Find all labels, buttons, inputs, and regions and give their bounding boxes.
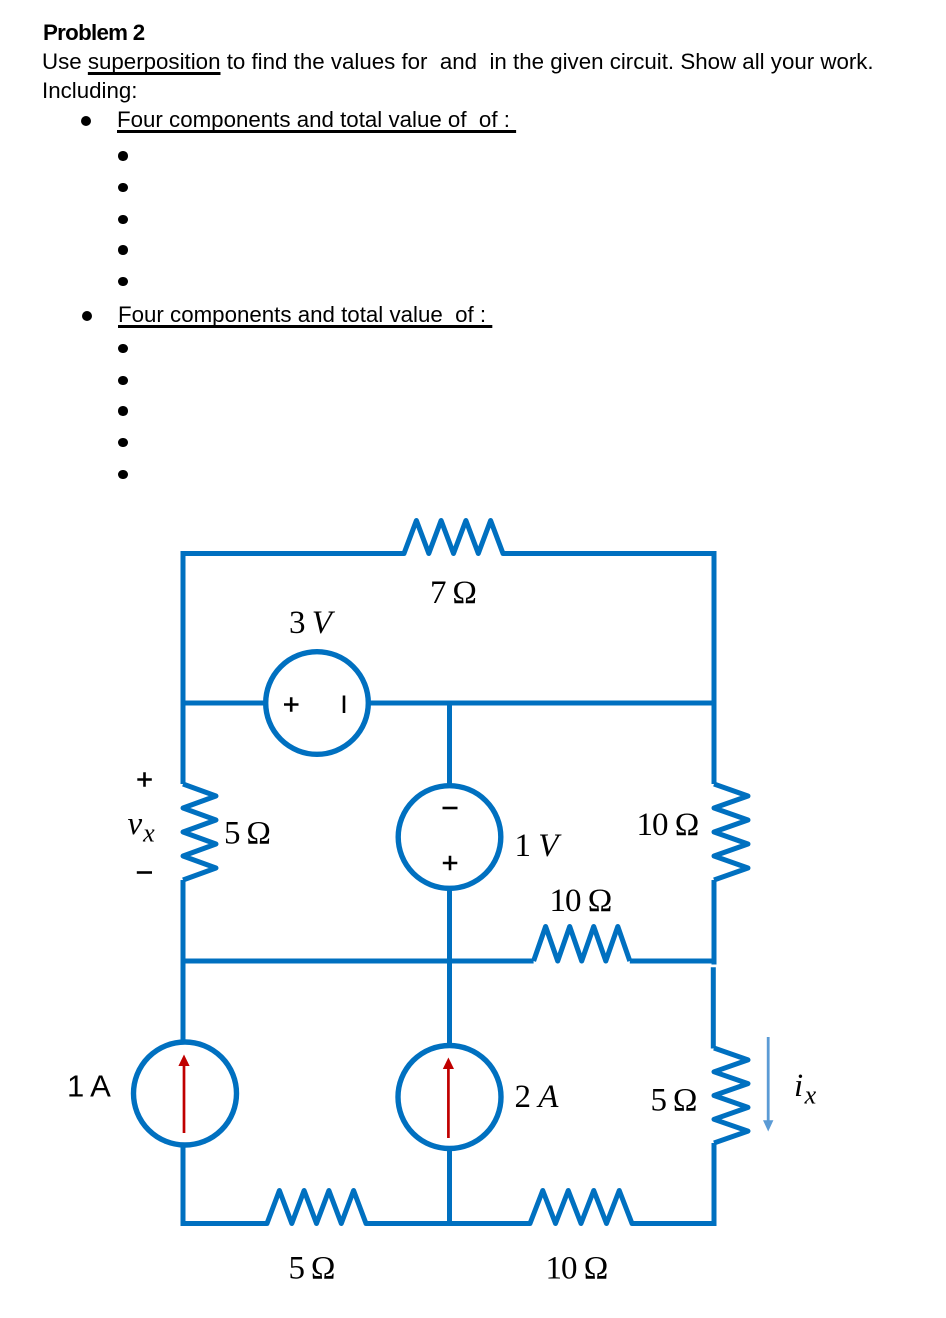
plus sign inside 3V source <box>284 697 299 712</box>
sub-bullet 1.4 <box>118 245 127 254</box>
bullet 1 marker <box>81 116 91 126</box>
arrow inside 2A current source <box>443 1058 454 1139</box>
svg-text:10 Ω: 10 Ω <box>550 883 612 919</box>
wire: right vertical upper segment <box>712 551 717 784</box>
svg-text:3 V: 3 V <box>289 605 336 641</box>
voltage source V1 3V (circle) <box>266 652 369 755</box>
svg-text:5 Ω: 5 Ω <box>651 1083 697 1119</box>
title "Problem 2" <box>43 22 145 44</box>
wire: left vertical below 1A source <box>181 1143 186 1226</box>
wire: right vertical from middle rail down to 5ohm (slight offset, gap artifact) <box>711 967 716 1048</box>
resistor 10ohm right (vertical zigzag) <box>714 784 748 880</box>
sub-bullet 1.3 <box>118 215 127 224</box>
arrow inside 1A current source <box>178 1055 189 1134</box>
voltage source V2 1V (circle) <box>398 786 501 889</box>
wire: right vertical from 10ohm down to middle rail <box>712 880 717 965</box>
svg-text:5 Ω: 5 Ω <box>289 1251 335 1287</box>
wire: middle vertical from 1V source to 2A source <box>447 886 452 1048</box>
sub-bullet 1.1 <box>118 151 127 160</box>
resistor 10ohm middle (horizontal zigzag) <box>534 927 630 962</box>
svg-text:5 Ω: 5 Ω <box>224 816 270 852</box>
sub-bullet 2.2 <box>118 376 127 385</box>
sub-bullet 2.4 <box>118 438 127 447</box>
bullet 1 text <box>117 109 516 131</box>
sub-bullet 2.3 <box>118 406 127 415</box>
sub-bullet 2.1 <box>118 344 127 353</box>
current arrow ix (light blue) <box>763 1037 773 1132</box>
wire: middle rail right segment <box>630 959 714 964</box>
wire: left vertical between 5ohm and 1A source <box>181 880 186 1044</box>
bullet 2 marker <box>82 311 92 321</box>
wire: middle vertical from second rail to 1V source <box>447 703 452 788</box>
wire: middle rail left segment <box>183 959 534 964</box>
svg-text:vx: vx <box>128 806 156 848</box>
wire: top rail with resistor 7ohm <box>183 521 714 557</box>
bullet 2 text <box>118 304 492 326</box>
resistor 5ohm right (vertical zigzag) <box>714 1048 748 1143</box>
plus sign for vx polarity <box>137 772 152 787</box>
svg-text:ix: ix <box>794 1068 817 1110</box>
resistor 5ohm left (vertical zigzag) <box>183 784 216 880</box>
svg-text:1 V: 1 V <box>515 828 563 864</box>
paragraph line 1 <box>42 51 874 73</box>
svg-text:1 A: 1 A <box>67 1069 111 1104</box>
wire: second rail right of 3V source <box>368 701 714 706</box>
current source I1 1A (circle) <box>134 1042 237 1145</box>
current source I2 2A (circle) <box>398 1046 501 1149</box>
minus (rotated bar) inside 3V source <box>343 696 346 714</box>
wire: right vertical lower segment <box>712 1143 717 1226</box>
wire: bottom rail with resistor 5ohm and 10ohm <box>183 1191 714 1224</box>
sub-bullet 1.2 <box>118 183 127 192</box>
plus sign inside 1V source <box>443 856 458 871</box>
wire: left vertical upper segment <box>181 551 186 784</box>
sub-bullet 2.5 <box>118 470 127 479</box>
svg-text:7 Ω: 7 Ω <box>430 575 476 611</box>
sub-bullet 1.5 <box>118 277 127 286</box>
minus sign inside 1V source <box>443 807 458 810</box>
wire: second rail left of 3V source <box>183 701 266 706</box>
minus sign for vx polarity <box>137 871 152 874</box>
wire: middle vertical below 2A source <box>447 1146 452 1226</box>
svg-text:2 A: 2 A <box>515 1079 560 1115</box>
svg-text:10 Ω: 10 Ω <box>637 807 699 843</box>
svg-text:10 Ω: 10 Ω <box>546 1251 608 1287</box>
paragraph line 2 "Including:" <box>42 80 137 102</box>
